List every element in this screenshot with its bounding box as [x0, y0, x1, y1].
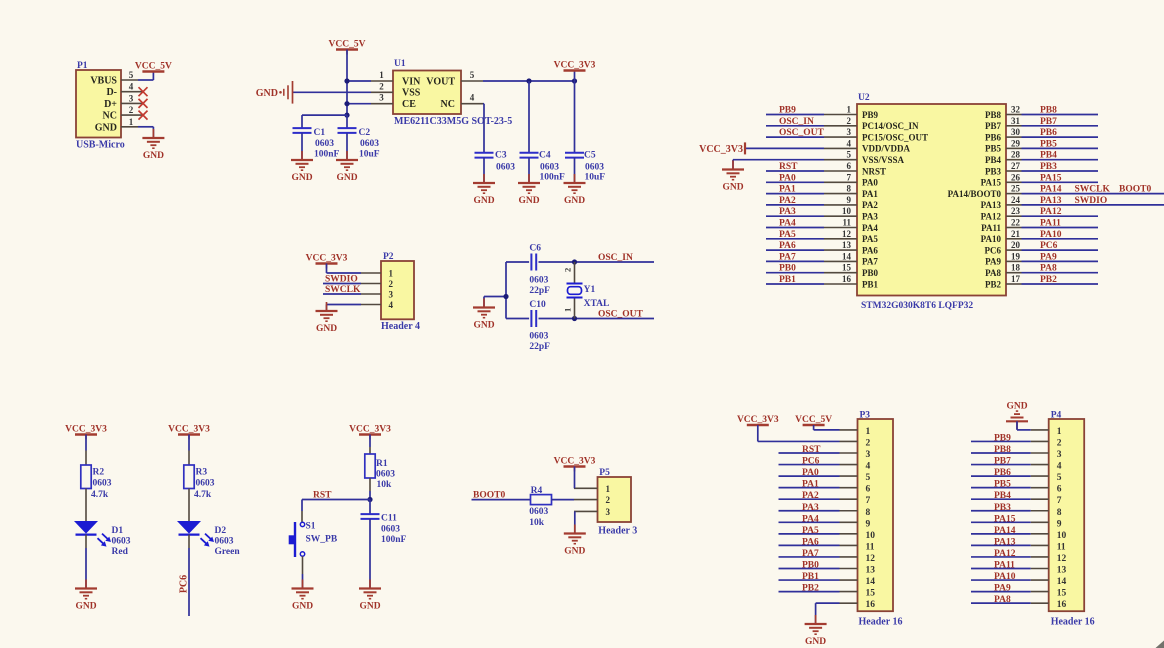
svg-text:C2: C2 [359, 128, 371, 138]
svg-text:4.7k: 4.7k [91, 490, 109, 500]
svg-text:14: 14 [866, 577, 876, 587]
svg-text:VOUT: VOUT [426, 76, 455, 87]
svg-text:CE: CE [402, 99, 416, 110]
svg-text:VCC_3V3: VCC_3V3 [168, 425, 210, 435]
svg-text:PB2: PB2 [802, 584, 819, 594]
svg-text:GND: GND [805, 637, 826, 647]
svg-text:P3: P3 [860, 411, 871, 421]
svg-text:21: 21 [1011, 229, 1021, 239]
svg-text:14: 14 [842, 251, 852, 261]
svg-text:13: 13 [866, 566, 876, 576]
svg-text:PA5: PA5 [802, 526, 819, 536]
svg-text:3: 3 [847, 127, 852, 137]
svg-text:VSS: VSS [402, 88, 421, 99]
svg-text:PB4: PB4 [994, 491, 1011, 501]
svg-text:PA4: PA4 [862, 223, 878, 233]
svg-text:GND: GND [292, 602, 313, 612]
svg-text:17: 17 [1011, 274, 1021, 284]
svg-text:0603: 0603 [529, 331, 548, 341]
svg-text:2: 2 [129, 105, 134, 115]
svg-text:PB9: PB9 [994, 433, 1011, 443]
svg-text:13: 13 [842, 240, 852, 250]
svg-text:VCC_3V3: VCC_3V3 [554, 457, 596, 467]
svg-text:0603: 0603 [540, 163, 559, 173]
svg-text:SWCLK: SWCLK [325, 285, 361, 295]
svg-text:VCC_5V: VCC_5V [135, 62, 172, 72]
svg-text:PA13: PA13 [981, 200, 1002, 210]
svg-text:PB2: PB2 [1040, 275, 1057, 285]
svg-text:5: 5 [847, 150, 852, 160]
svg-text:3: 3 [379, 93, 384, 103]
svg-text:8: 8 [847, 184, 852, 194]
svg-text:Header 16: Header 16 [859, 617, 903, 628]
svg-text:9: 9 [866, 519, 871, 529]
svg-text:VIN: VIN [402, 76, 421, 87]
svg-text:0603: 0603 [376, 470, 395, 480]
svg-text:PA14: PA14 [994, 526, 1016, 536]
svg-text:PB5: PB5 [994, 480, 1011, 490]
svg-text:PA3: PA3 [802, 503, 819, 513]
svg-text:VCC_5V: VCC_5V [329, 40, 366, 50]
svg-text:PC14/OSC_IN: PC14/OSC_IN [862, 121, 919, 131]
svg-text:USB-Micro: USB-Micro [76, 140, 125, 151]
svg-text:PB0: PB0 [779, 264, 796, 274]
svg-text:19: 19 [1011, 251, 1021, 261]
svg-text:PA12: PA12 [1040, 207, 1062, 217]
svg-text:32: 32 [1011, 105, 1021, 115]
svg-text:PA7: PA7 [862, 257, 878, 267]
svg-text:PA4: PA4 [802, 514, 819, 524]
svg-text:0603: 0603 [215, 537, 234, 547]
svg-text:PA15: PA15 [994, 514, 1016, 524]
svg-text:4: 4 [866, 462, 871, 472]
svg-text:20: 20 [1011, 240, 1021, 250]
svg-text:ME6211C33M5G SOT-23-5: ME6211C33M5G SOT-23-5 [394, 116, 512, 127]
svg-text:NC: NC [441, 99, 455, 110]
svg-text:PA5: PA5 [779, 230, 796, 240]
svg-text:6: 6 [847, 161, 852, 171]
svg-text:PA2: PA2 [862, 200, 878, 210]
svg-text:PA1: PA1 [802, 480, 819, 490]
svg-text:GND: GND [518, 196, 539, 206]
svg-text:11: 11 [1057, 542, 1066, 552]
svg-text:11: 11 [866, 542, 875, 552]
svg-text:PA8: PA8 [985, 268, 1001, 278]
svg-text:OSC_OUT: OSC_OUT [779, 128, 825, 138]
svg-text:STM32G030K8T6 LQFP32: STM32G030K8T6 LQFP32 [861, 301, 973, 311]
svg-text:PA2: PA2 [802, 491, 819, 501]
svg-text:PA14: PA14 [1040, 185, 1062, 195]
svg-text:D-: D- [106, 87, 117, 98]
svg-text:SWDIO: SWDIO [1075, 196, 1108, 206]
svg-text:0603: 0603 [529, 275, 548, 285]
svg-text:PB9: PB9 [779, 106, 796, 116]
svg-text:23: 23 [1011, 206, 1021, 216]
svg-text:PA3: PA3 [862, 212, 878, 222]
svg-text:13: 13 [1057, 566, 1067, 576]
svg-text:8: 8 [866, 508, 871, 518]
svg-text:PA9: PA9 [994, 584, 1011, 594]
svg-text:0603: 0603 [496, 163, 515, 173]
svg-text:3: 3 [1057, 450, 1062, 460]
svg-text:C3: C3 [495, 151, 507, 161]
svg-text:OSC_OUT: OSC_OUT [598, 310, 644, 320]
svg-text:PB4: PB4 [985, 155, 1002, 165]
svg-text:14: 14 [1057, 577, 1067, 587]
svg-text:1: 1 [389, 269, 394, 279]
svg-text:VCC_3V3: VCC_3V3 [554, 61, 596, 71]
svg-text:U1: U1 [394, 59, 406, 69]
svg-text:D1: D1 [112, 526, 124, 536]
svg-text:U2: U2 [858, 93, 870, 103]
svg-text:R2: R2 [93, 468, 105, 478]
svg-text:PB0: PB0 [802, 561, 819, 571]
svg-text:PB3: PB3 [985, 166, 1002, 176]
svg-text:C4: C4 [539, 151, 551, 161]
svg-text:PB5: PB5 [985, 144, 1002, 154]
svg-text:15: 15 [1057, 589, 1067, 599]
svg-text:4: 4 [389, 300, 394, 310]
svg-text:VCC_3V3: VCC_3V3 [737, 415, 779, 425]
svg-text:8: 8 [1057, 508, 1062, 518]
svg-text:PA6: PA6 [802, 537, 819, 547]
svg-text:SWCLK: SWCLK [1075, 185, 1111, 195]
svg-text:2: 2 [847, 116, 852, 126]
svg-text:VCC_3V3: VCC_3V3 [65, 425, 107, 435]
svg-text:0603: 0603 [360, 139, 379, 149]
svg-text:PA1: PA1 [862, 189, 878, 199]
svg-text:0603: 0603 [585, 163, 604, 173]
svg-text:Green: Green [215, 547, 241, 557]
svg-text:PB9: PB9 [862, 110, 879, 120]
svg-text:VBUS: VBUS [90, 76, 117, 87]
svg-text:22: 22 [1011, 218, 1021, 228]
svg-text:100nF: 100nF [381, 535, 407, 545]
svg-text:6: 6 [866, 485, 871, 495]
svg-text:PA8: PA8 [994, 595, 1011, 605]
svg-text:C11: C11 [381, 514, 397, 524]
svg-text:PA13: PA13 [1040, 196, 1062, 206]
svg-text:GND: GND [722, 183, 743, 193]
svg-text:PB8: PB8 [1040, 106, 1057, 116]
svg-text:R4: R4 [531, 486, 543, 496]
svg-text:PA0: PA0 [779, 173, 796, 183]
svg-text:PC6: PC6 [179, 575, 190, 593]
svg-text:GND: GND [1006, 401, 1027, 411]
svg-text:RST: RST [802, 445, 821, 455]
svg-text:RST: RST [313, 491, 332, 501]
svg-text:4: 4 [847, 138, 852, 148]
svg-text:C1: C1 [314, 128, 326, 138]
svg-text:22pF: 22pF [529, 342, 550, 352]
svg-text:28: 28 [1011, 150, 1021, 160]
svg-text:D2: D2 [215, 526, 227, 536]
svg-text:30: 30 [1011, 127, 1021, 137]
svg-text:SWDIO: SWDIO [325, 275, 358, 285]
svg-text:9: 9 [847, 195, 852, 205]
svg-text:31: 31 [1011, 116, 1021, 126]
svg-text:Header 4: Header 4 [381, 321, 420, 332]
svg-text:VSS/VSSA: VSS/VSSA [862, 155, 905, 165]
svg-text:0603: 0603 [315, 139, 334, 149]
svg-text:PA14/BOOT0: PA14/BOOT0 [948, 189, 1002, 199]
svg-text:C10: C10 [529, 300, 546, 310]
svg-text:0603: 0603 [529, 507, 548, 517]
svg-text:15: 15 [842, 263, 852, 273]
svg-text:24: 24 [1011, 195, 1021, 205]
svg-text:PB2: PB2 [985, 279, 1002, 289]
svg-text:GND: GND [473, 196, 494, 206]
svg-text:SW_PB: SW_PB [306, 535, 338, 545]
svg-text:BOOT0: BOOT0 [473, 491, 505, 501]
svg-text:2: 2 [563, 268, 573, 272]
svg-text:PA11: PA11 [994, 561, 1015, 571]
svg-text:PA15: PA15 [981, 178, 1002, 188]
svg-text:P2: P2 [383, 252, 394, 262]
svg-text:PC6: PC6 [802, 457, 820, 467]
svg-text:PB6: PB6 [994, 468, 1011, 478]
svg-text:4.7k: 4.7k [194, 490, 212, 500]
svg-text:PB8: PB8 [985, 110, 1002, 120]
svg-text:NC: NC [103, 111, 117, 122]
svg-text:GND: GND [316, 324, 337, 334]
svg-text:PA11: PA11 [1040, 219, 1061, 229]
svg-text:VCC_5V: VCC_5V [795, 415, 832, 425]
svg-text:3: 3 [866, 450, 871, 460]
svg-text:S1: S1 [306, 522, 316, 532]
svg-text:GND: GND [256, 88, 278, 99]
svg-text:0603: 0603 [381, 524, 400, 534]
svg-text:16: 16 [842, 274, 852, 284]
svg-text:1: 1 [379, 70, 384, 80]
svg-text:6: 6 [1057, 485, 1062, 495]
svg-text:PA7: PA7 [779, 252, 796, 262]
svg-text:2: 2 [389, 279, 394, 289]
svg-text:5: 5 [866, 473, 871, 483]
svg-text:PA0: PA0 [802, 468, 819, 478]
svg-text:3: 3 [606, 507, 611, 517]
svg-text:7: 7 [866, 496, 871, 506]
svg-text:12: 12 [842, 229, 852, 239]
svg-text:C5: C5 [584, 151, 596, 161]
svg-text:PA12: PA12 [981, 212, 1002, 222]
svg-text:7: 7 [1057, 496, 1062, 506]
svg-text:PB1: PB1 [779, 275, 796, 285]
svg-text:GND: GND [359, 602, 380, 612]
svg-text:PA9: PA9 [985, 257, 1001, 267]
svg-text:1: 1 [129, 117, 134, 127]
svg-text:2: 2 [379, 81, 384, 91]
svg-text:XTAL: XTAL [584, 299, 610, 309]
svg-text:0603: 0603 [93, 479, 112, 489]
svg-text:PC6: PC6 [985, 245, 1002, 255]
svg-text:GND: GND [473, 321, 494, 331]
svg-text:0603: 0603 [196, 479, 215, 489]
svg-text:9: 9 [1057, 519, 1062, 529]
svg-text:GND: GND [564, 547, 585, 557]
svg-text:2: 2 [606, 495, 611, 505]
svg-text:GND: GND [564, 196, 585, 206]
svg-text:12: 12 [1057, 554, 1067, 564]
svg-text:12: 12 [866, 554, 876, 564]
svg-text:3: 3 [129, 93, 134, 103]
svg-text:0603: 0603 [112, 537, 131, 547]
svg-text:PB4: PB4 [1040, 151, 1057, 161]
svg-text:PA3: PA3 [779, 207, 796, 217]
svg-text:10uF: 10uF [585, 173, 606, 183]
svg-text:10uF: 10uF [359, 150, 380, 160]
svg-text:PA15: PA15 [1040, 173, 1062, 183]
svg-text:5: 5 [129, 70, 134, 80]
svg-text:10k: 10k [377, 480, 393, 490]
svg-text:4: 4 [1057, 462, 1062, 472]
svg-text:GND: GND [291, 173, 312, 183]
svg-text:NRST: NRST [862, 166, 886, 176]
svg-text:R3: R3 [196, 468, 208, 478]
svg-text:PA6: PA6 [862, 245, 878, 255]
svg-text:100nF: 100nF [540, 173, 566, 183]
svg-text:1: 1 [866, 427, 871, 437]
svg-text:16: 16 [1057, 600, 1067, 610]
svg-text:PB1: PB1 [802, 572, 819, 582]
svg-text:16: 16 [866, 600, 876, 610]
svg-text:PA10: PA10 [994, 572, 1016, 582]
svg-text:GND: GND [143, 151, 164, 161]
svg-text:PB7: PB7 [1040, 117, 1057, 127]
svg-text:5: 5 [470, 70, 475, 80]
svg-text:PB1: PB1 [862, 279, 879, 289]
svg-text:PB7: PB7 [994, 457, 1011, 467]
svg-text:PC6: PC6 [1040, 241, 1058, 251]
svg-text:4: 4 [470, 93, 475, 103]
svg-text:1: 1 [563, 308, 573, 312]
svg-text:27: 27 [1011, 161, 1021, 171]
svg-text:OSC_IN: OSC_IN [779, 117, 814, 127]
svg-text:3: 3 [389, 290, 394, 300]
svg-text:PB6: PB6 [1040, 128, 1057, 138]
svg-text:1: 1 [1057, 427, 1062, 437]
svg-text:C6: C6 [529, 244, 541, 254]
svg-text:PA8: PA8 [1040, 264, 1057, 274]
svg-text:PB6: PB6 [985, 132, 1002, 142]
svg-text:R1: R1 [376, 459, 388, 469]
svg-text:PB3: PB3 [994, 503, 1011, 513]
svg-text:VDD/VDDA: VDD/VDDA [862, 144, 910, 154]
svg-text:10k: 10k [529, 518, 545, 528]
svg-text:P4: P4 [1051, 411, 1062, 421]
svg-text:PB7: PB7 [985, 121, 1002, 131]
svg-text:PA13: PA13 [994, 537, 1016, 547]
svg-text:VCC_3V3: VCC_3V3 [306, 254, 348, 264]
svg-text:29: 29 [1011, 138, 1021, 148]
svg-text:PA4: PA4 [779, 219, 796, 229]
svg-text:10: 10 [1057, 531, 1067, 541]
svg-text:VCC_3V3: VCC_3V3 [349, 425, 391, 435]
svg-text:P5: P5 [599, 468, 610, 478]
svg-text:PC15/OSC_OUT: PC15/OSC_OUT [862, 132, 928, 142]
svg-text:D+: D+ [104, 99, 117, 110]
svg-text:OSC_IN: OSC_IN [598, 253, 633, 263]
svg-text:1: 1 [606, 484, 611, 494]
svg-text:25: 25 [1011, 184, 1021, 194]
svg-text:PA2: PA2 [779, 196, 796, 206]
svg-text:PA6: PA6 [779, 241, 796, 251]
svg-text:Red: Red [112, 547, 129, 557]
svg-text:2: 2 [1057, 438, 1062, 448]
svg-text:2: 2 [866, 438, 871, 448]
svg-text:11: 11 [842, 218, 851, 228]
svg-text:10: 10 [842, 206, 852, 216]
svg-text:7: 7 [847, 172, 852, 182]
svg-text:Header 16: Header 16 [1051, 617, 1095, 628]
svg-text:PA7: PA7 [802, 549, 819, 559]
svg-text:15: 15 [866, 589, 876, 599]
svg-text:GND: GND [75, 602, 96, 612]
svg-text:PA10: PA10 [981, 234, 1002, 244]
svg-text:26: 26 [1011, 172, 1021, 182]
svg-text:Y1: Y1 [584, 285, 596, 295]
svg-text:VCC_3V3: VCC_3V3 [699, 144, 743, 155]
svg-text:PA5: PA5 [862, 234, 878, 244]
svg-text:PB8: PB8 [994, 445, 1011, 455]
svg-text:PA12: PA12 [994, 549, 1016, 559]
svg-text:RST: RST [779, 162, 798, 172]
svg-text:GND: GND [95, 122, 117, 133]
svg-text:PA11: PA11 [981, 223, 1001, 233]
svg-text:22pF: 22pF [529, 286, 550, 296]
svg-text:PA1: PA1 [779, 185, 796, 195]
svg-text:10: 10 [866, 531, 876, 541]
svg-text:PA0: PA0 [862, 178, 878, 188]
svg-text:PB5: PB5 [1040, 139, 1057, 149]
svg-text:100nF: 100nF [314, 150, 340, 160]
svg-text:BOOT0: BOOT0 [1119, 185, 1151, 195]
svg-text:GND: GND [336, 173, 357, 183]
svg-text:PB3: PB3 [1040, 162, 1057, 172]
svg-text:4: 4 [129, 82, 134, 92]
svg-text:P1: P1 [77, 61, 88, 71]
svg-text:PA10: PA10 [1040, 230, 1062, 240]
svg-text:PB0: PB0 [862, 268, 879, 278]
svg-text:Header 3: Header 3 [598, 526, 637, 537]
svg-text:5: 5 [1057, 473, 1062, 483]
svg-text:18: 18 [1011, 263, 1021, 273]
svg-text:PA9: PA9 [1040, 252, 1057, 262]
svg-text:1: 1 [847, 105, 852, 115]
